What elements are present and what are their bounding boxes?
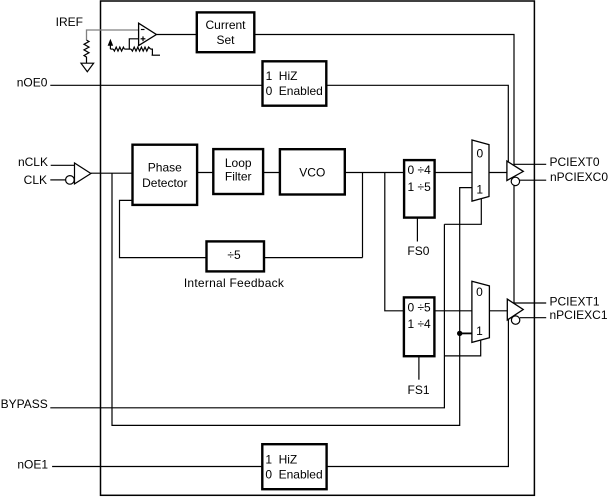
wire divider1 to mux1 input 0: [434, 310, 472, 312]
svg-text:Detector: Detector: [142, 176, 187, 190]
bubble on buffer 0 inverted output: [511, 177, 519, 185]
wire PCIEXT1 output: [514, 302, 546, 304]
wire mux1 output to buffer 1: [489, 310, 507, 312]
svg-text:VCO: VCO: [299, 165, 325, 179]
wire nPCIEXC0 output: [520, 179, 547, 181]
resistor R2 (horizontal): [131, 47, 151, 51]
wire R1 to R2 with feedback tap to op-amp plus input: [124, 48, 131, 50]
svg-text:1 ÷4: 1 ÷4: [407, 317, 431, 331]
wire divider0 to mux0 input 0: [435, 172, 472, 174]
wire nOE0 to HiZ box: [50, 84, 262, 86]
input buffer bubble on CLK: [66, 176, 75, 185]
svg-text:Set: Set: [216, 33, 235, 47]
svg-text:0: 0: [476, 285, 483, 299]
wire clock bypass drop: [112, 173, 472, 425]
wire mux0 output to buffer 0: [489, 172, 507, 174]
wire nPCIEXC1 output: [520, 317, 546, 319]
wire arrow to resistor R1: [110, 48, 113, 50]
wire Phase Detector to Loop Filter: [197, 172, 213, 174]
svg-text:PCIEXT0: PCIEXT0: [550, 155, 600, 169]
svg-text:nOE1: nOE1: [17, 458, 48, 472]
svg-text:BYPASS: BYPASS: [1, 397, 48, 411]
wire PCIEXT0 output: [514, 163, 546, 165]
ground stub after R2: [151, 49, 153, 55]
mux 0: [472, 140, 489, 201]
svg-text:Enabled: Enabled: [279, 467, 323, 481]
wire Loop Filter to VCO: [263, 172, 280, 174]
wire tap junction to plus input: [129, 39, 138, 49]
op-amp plus sign: [141, 36, 146, 41]
svg-text:1: 1: [476, 183, 483, 197]
svg-text:Internal Feedback: Internal Feedback: [184, 276, 285, 290]
svg-text:1 ÷5: 1 ÷5: [408, 180, 432, 194]
wire IREF to op-amp (gray): [87, 30, 139, 40]
block nOE1 HiZ/Enabled: [262, 444, 326, 489]
svg-text:1: 1: [476, 324, 483, 338]
block feedback divider /5: [207, 241, 265, 271]
svg-text:0: 0: [477, 146, 484, 160]
wire FS0 select stub: [416, 218, 418, 242]
svg-text:HiZ: HiZ: [279, 69, 298, 83]
wire op-amp output to Current Set: [156, 34, 196, 36]
wire /5 right side to VCO drop: [264, 257, 363, 259]
block nOE0 HiZ/Enabled: [263, 61, 327, 105]
current source arrow: [108, 40, 112, 49]
block Loop Filter: [213, 149, 263, 194]
svg-text:Loop: Loop: [225, 156, 252, 170]
svg-text:0: 0: [266, 84, 273, 98]
svg-text:0 ÷4: 0 ÷4: [408, 163, 432, 177]
wire VCO output drop to feedback divider: [362, 173, 364, 258]
bubble on buffer 1 inverted output: [511, 316, 519, 324]
svg-text:nCLK: nCLK: [18, 155, 48, 169]
wire VCO output to divider 0: [345, 172, 404, 174]
svg-text:0: 0: [265, 467, 272, 481]
wire /5 left side to Phase Detector feedback input: [120, 200, 207, 257]
svg-text:nOE0: nOE0: [17, 75, 48, 89]
svg-text:IREF: IREF: [56, 15, 83, 29]
wire Current Set output to buffers (current set rail): [254, 35, 514, 303]
wire mux0 select from BYPASS: [444, 199, 481, 224]
wire CLK input: [50, 179, 65, 181]
svg-text:PCIEXT1: PCIEXT1: [550, 294, 600, 308]
svg-text:0 ÷5: 0 ÷5: [407, 300, 431, 314]
wire nOE1 to HiZ box: [52, 466, 262, 468]
op-amp minus sign: [141, 29, 145, 31]
block Phase Detector: [133, 145, 198, 205]
svg-text:÷5: ÷5: [227, 248, 241, 262]
block VCO: [280, 149, 345, 194]
ground bar: [152, 54, 160, 56]
block divider FS1 (0 /5, 1 /4): [404, 297, 435, 356]
block divider FS0 (0 /4, 1 /5): [404, 160, 435, 218]
output buffer 0: [507, 161, 523, 180]
output buffer 1: [507, 299, 523, 320]
wire VCO output drop to divider 1: [385, 173, 404, 311]
wire input buffer to Phase Detector: [91, 172, 133, 174]
svg-text:HiZ: HiZ: [279, 452, 298, 466]
wire dot to lower mux input 1: [460, 332, 472, 334]
ground symbol (IREF): [81, 63, 94, 71]
svg-text:FS1: FS1: [407, 383, 429, 397]
mux 1: [472, 281, 490, 342]
resistor R1 (horizontal): [113, 47, 124, 51]
wire HiZ box to output buffer 0 enable: [326, 85, 508, 162]
resistor on IREF to ground: [84, 40, 89, 63]
svg-text:FS0: FS0: [407, 244, 429, 258]
svg-text:1: 1: [265, 452, 272, 466]
svg-text:Enabled: Enabled: [279, 84, 323, 98]
block Current Set: [197, 12, 255, 52]
wire mux1 select from BYPASS: [444, 340, 480, 356]
outer block boundary box: [101, 1, 535, 495]
svg-text:1: 1: [266, 69, 273, 83]
wire FS1 select stub: [418, 356, 420, 380]
op-amp U1: [139, 23, 157, 45]
input buffer triangle: [75, 163, 91, 184]
svg-text:nPCIEXC0: nPCIEXC0: [550, 170, 608, 184]
svg-text:CLK: CLK: [24, 173, 47, 187]
svg-text:Current: Current: [205, 18, 246, 32]
wire nCLK input: [51, 164, 75, 166]
svg-text:Phase: Phase: [148, 160, 182, 174]
wire BYPASS to mux selects: [50, 224, 444, 407]
svg-text:nPCIEXC1: nPCIEXC1: [550, 308, 608, 322]
svg-text:Filter: Filter: [225, 170, 252, 184]
wire HiZ box to output buffer 1 enable: [327, 319, 509, 467]
junction dot bypass to mux 1 lower: [457, 331, 462, 336]
